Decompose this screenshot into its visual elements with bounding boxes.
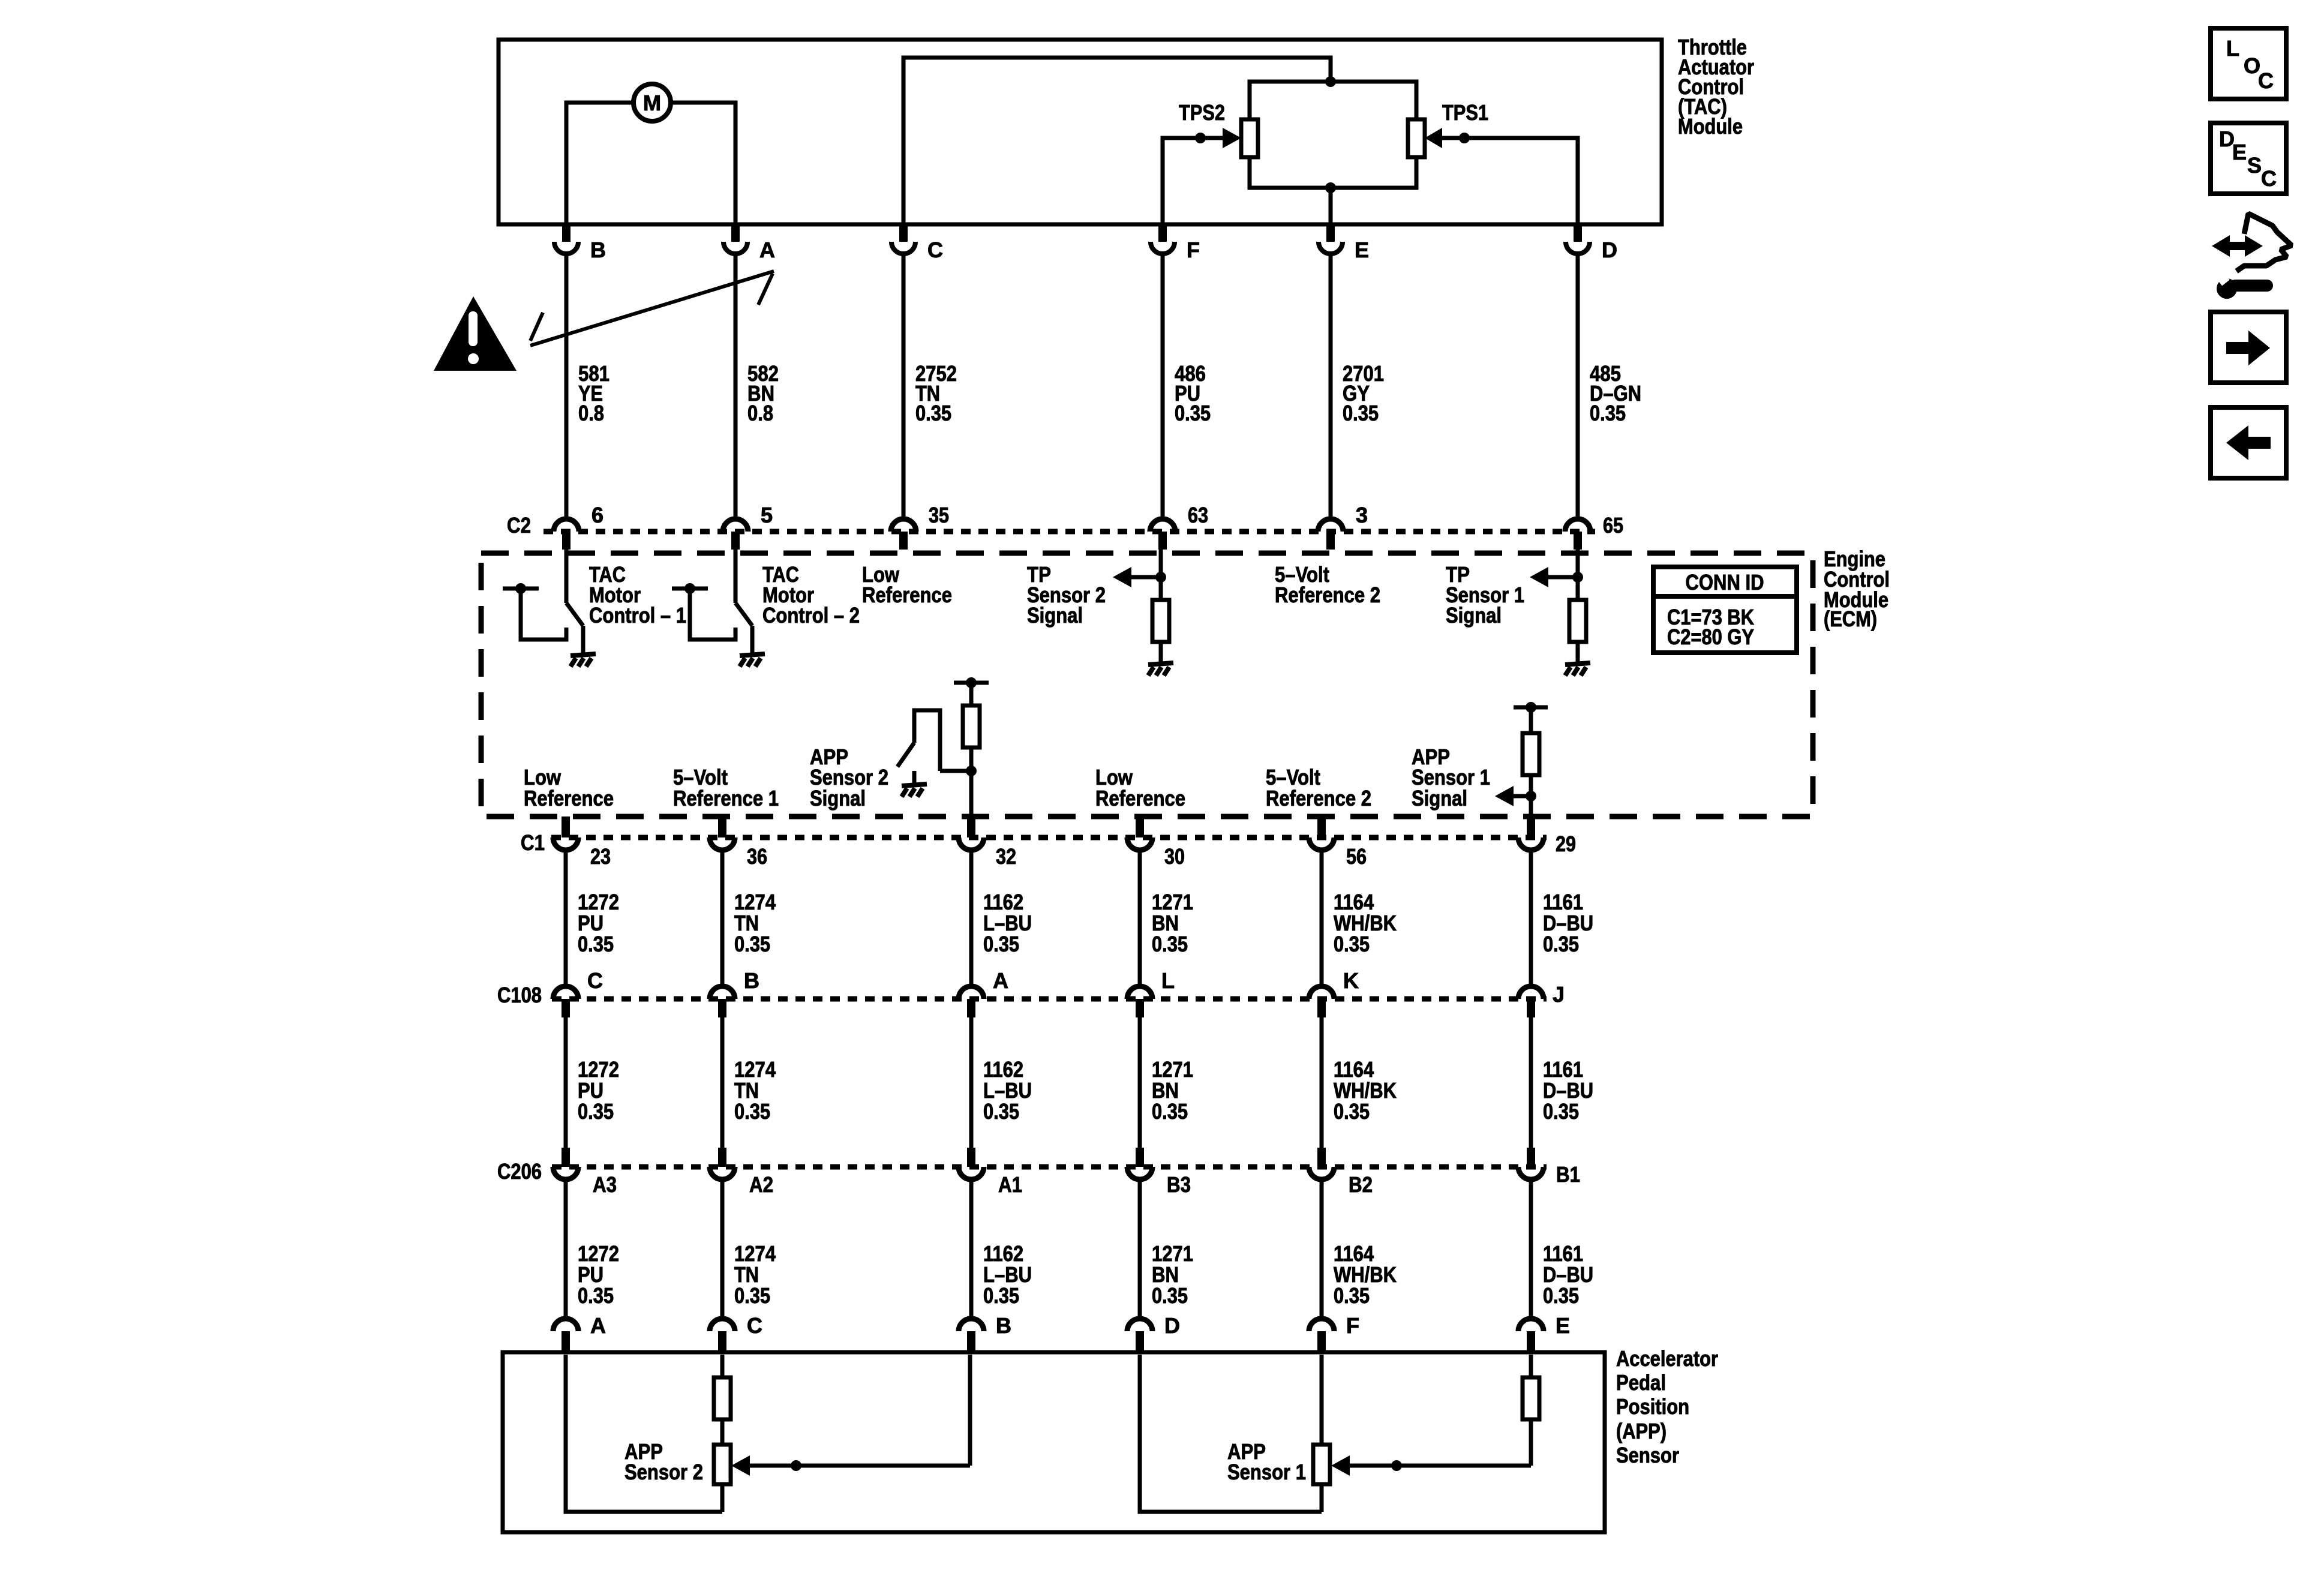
wire pin 63 into ECM — [1159, 550, 1163, 600]
svg-text:C: C — [747, 1313, 762, 1338]
APP sensor 1 signal arrow — [1495, 786, 1531, 806]
connector C206 pin B2 terminal — [1309, 1167, 1334, 1179]
wire C1 pin 36 to C108 pin B — [720, 850, 725, 985]
resistor (TP sensor 1 pull-down) — [1569, 600, 1586, 642]
svg-text:Pedal: Pedal — [1616, 1370, 1666, 1395]
diagnostic icon double arrow — [2212, 235, 2263, 257]
connector C2 pin 6 bar — [562, 532, 571, 550]
svg-text:5: 5 — [761, 503, 773, 527]
wire APP1 resistor to pin 29 — [1529, 775, 1533, 816]
APP sensor 2 potentiometer element — [714, 1445, 731, 1484]
connector C1 pin 36 terminal — [710, 837, 735, 850]
wire C206 pin A1 to APP terminal B — [969, 1179, 974, 1317]
svg-text:0.35: 0.35 — [915, 401, 951, 425]
svg-text:C: C — [2258, 68, 2274, 93]
svg-text:Position: Position — [1616, 1394, 1689, 1419]
connector C108 pin K terminal — [1309, 986, 1334, 999]
svg-text:0.35: 0.35 — [1343, 401, 1379, 425]
wire terminal D to APP sensor 1 low side — [1140, 1355, 1322, 1512]
svg-text:Reference 1: Reference 1 — [673, 786, 779, 810]
wire label 1274 TN (C1-C108) — [734, 890, 776, 956]
terminal E (APP sensor) — [1518, 1319, 1544, 1351]
svg-text:0.35: 0.35 — [983, 1283, 1019, 1308]
terminal A (APP sensor) — [553, 1319, 578, 1351]
wire E to C2 pin 3 — [1329, 254, 1333, 517]
wire C108 pin J to C206 pin B1 — [1529, 1017, 1533, 1167]
svg-text:Reference 2: Reference 2 — [1266, 786, 1371, 810]
ground (TP sensor 1) — [1565, 663, 1590, 676]
wire A to C2 pin 5 — [734, 254, 738, 517]
svg-text:Reference: Reference — [524, 786, 614, 810]
APP sensor 2 wiper arrow — [731, 1455, 970, 1476]
connector C206 pin A3 bar — [562, 1148, 570, 1167]
APP sensor box — [503, 1352, 1605, 1532]
svg-text:B: B — [590, 238, 606, 262]
resistor (APP sensor 2 series) — [714, 1377, 731, 1419]
terminal F (TAC module) — [1151, 223, 1175, 254]
terminal B (APP sensor) — [959, 1319, 984, 1351]
junction (TP sensor 1 signal) — [1572, 572, 1583, 583]
wire C206 pin A2 to APP terminal C — [720, 1179, 725, 1317]
svg-text:6: 6 — [591, 503, 603, 527]
motor M — [633, 84, 671, 121]
svg-text:L: L — [2226, 36, 2239, 61]
connector C206 pin A1 bar — [967, 1148, 975, 1167]
svg-text:Module: Module — [1678, 114, 1743, 139]
svg-text:D: D — [1602, 238, 1617, 262]
diagnostic icon wrench — [2208, 262, 2267, 299]
TAC motor control 2 driver bracket — [672, 589, 735, 640]
svg-text:A: A — [993, 968, 1008, 993]
wire F to C2 pin 63 — [1161, 254, 1165, 517]
wire pin 6 into ECM — [565, 550, 569, 603]
wire APP sensor 2 element low side — [720, 1484, 725, 1512]
svg-text:Signal: Signal — [1446, 603, 1502, 628]
connector C2 pin 35 terminal — [891, 519, 916, 532]
TAC module label — [1678, 35, 1754, 139]
svg-text:Signal: Signal — [1412, 786, 1467, 810]
ECM module label — [1824, 547, 1890, 631]
Low Reference label (pin 23) — [524, 765, 614, 810]
wire C1 pin 32 to C108 pin A — [969, 850, 974, 985]
wire label 1164 WH/BK (C108-C206) — [1334, 1057, 1397, 1124]
resistor (APP sensor 2 pull-up) — [963, 706, 980, 748]
svg-text:F: F — [1187, 238, 1200, 262]
resistor (APP sensor 1 series) — [1523, 1377, 1539, 1419]
connector C1 pin 23 bar — [562, 816, 570, 837]
svg-text:3: 3 — [1356, 503, 1368, 527]
svg-text:65: 65 — [1603, 513, 1623, 538]
svg-text:Sensor 2: Sensor 2 — [624, 1460, 703, 1484]
junction (APP2 signal) — [966, 766, 977, 776]
wire C108 pin C to C206 pin A3 — [564, 1017, 568, 1167]
ground (TP sensor 2) — [1148, 663, 1173, 676]
wire terminal C to TPS network top — [903, 58, 1331, 224]
connector C2 pin 5 terminal — [723, 519, 748, 532]
warning symbol — [434, 296, 517, 371]
connector C206 pin A3 terminal — [553, 1167, 578, 1179]
connector C206 pin B1 bar — [1527, 1148, 1535, 1167]
wire label 1271 BN (C1-C108) — [1152, 890, 1193, 956]
CONN ID table — [1653, 567, 1797, 653]
svg-text:30: 30 — [1164, 844, 1185, 869]
svg-text:Signal: Signal — [810, 786, 866, 810]
twisted-wire annotation line — [530, 271, 774, 346]
connector C1 pin 23 terminal — [553, 837, 578, 850]
svg-text:A: A — [590, 1313, 606, 1338]
connector C2 pin 6 terminal — [554, 519, 579, 532]
svg-text:C206: C206 — [497, 1159, 542, 1184]
svg-text:E: E — [2232, 140, 2247, 164]
terminal F (APP sensor) — [1309, 1319, 1334, 1351]
wire terminal B into box — [968, 1355, 972, 1466]
wire label 486 PU — [1175, 361, 1211, 425]
svg-text:B: B — [996, 1313, 1011, 1338]
svg-text:C1: C1 — [521, 830, 545, 855]
terminal D (TAC module) — [1566, 223, 1590, 254]
TAC Motor Control 2 label — [762, 562, 860, 628]
svg-text:56: 56 — [1346, 844, 1367, 869]
5-Volt Reference 2 label (pin 3) — [1275, 562, 1380, 607]
svg-text:TPS2: TPS2 — [1179, 100, 1225, 125]
TPS1 wiper arrow — [1425, 128, 1442, 148]
junction on TPS2 wiper wire — [1195, 133, 1206, 143]
connector C2 pin 3 terminal — [1318, 519, 1343, 532]
svg-text:C2: C2 — [507, 513, 531, 538]
wire pin 5 into ECM — [734, 550, 738, 603]
wire C108 pin K to C206 pin B2 — [1320, 1017, 1324, 1167]
svg-text:Sensor: Sensor — [1616, 1443, 1679, 1467]
svg-text:0.35: 0.35 — [1152, 932, 1188, 956]
wire label 1161 D–BU (C108-C206) — [1543, 1057, 1593, 1124]
TAC motor control 1 driver bracket — [503, 589, 566, 640]
svg-text:L: L — [1161, 968, 1175, 993]
wire label 1164 WH/BK (C1-C108) — [1334, 890, 1397, 956]
svg-text:D: D — [1164, 1313, 1180, 1338]
wire C to C2 pin 35 — [902, 254, 906, 517]
connector C206 pin B1 terminal — [1518, 1167, 1544, 1179]
connector C108 pin J terminal — [1518, 986, 1544, 999]
svg-text:Signal: Signal — [1027, 603, 1083, 628]
connector C2 pin 63 terminal — [1150, 519, 1175, 532]
connector C206 pin B2 bar — [1317, 1148, 1326, 1167]
wire label 1162 L–BU (C108-C206) — [983, 1057, 1032, 1124]
svg-text:0.35: 0.35 — [983, 1099, 1019, 1124]
connector C1 pin 29 bar — [1527, 816, 1535, 837]
junction TPS top — [1325, 76, 1336, 87]
connector C206 row line — [552, 1164, 1547, 1170]
APP sensor 1 potentiometer element — [1313, 1445, 1330, 1484]
svg-text:J: J — [1553, 982, 1565, 1007]
junction (APP1 top) — [1526, 702, 1536, 713]
Low Reference label (pin 30) — [1095, 765, 1185, 810]
wire C108 pin B to C206 pin A2 — [720, 1017, 725, 1167]
svg-text:E: E — [1556, 1313, 1570, 1338]
wire to APP1 resistor — [1529, 707, 1533, 733]
svg-text:K: K — [1343, 968, 1359, 993]
svg-text:S: S — [2247, 153, 2262, 178]
wire APP sensor 1 element low side — [1320, 1484, 1324, 1512]
TP Sensor 2 Signal label — [1027, 562, 1106, 628]
wire terminal B to motor — [566, 103, 632, 224]
svg-text:0.8: 0.8 — [747, 401, 773, 425]
svg-text:63: 63 — [1188, 503, 1208, 527]
svg-text:A3: A3 — [593, 1172, 617, 1197]
APP sensor 2 switch blade — [897, 743, 914, 767]
svg-text:0.35: 0.35 — [1334, 932, 1370, 956]
resistor (TP sensor 2 pull-down) — [1152, 600, 1169, 642]
wire label 1272 PU (C1-C108) — [578, 890, 619, 956]
wire C206 pin A3 to APP terminal A — [564, 1179, 568, 1317]
svg-text:Reference 2: Reference 2 — [1275, 583, 1380, 607]
connector C206 pin B3 terminal — [1127, 1167, 1152, 1179]
TPS2 wiper arrow — [1223, 128, 1241, 148]
ground (TAC motor control 2) — [740, 654, 765, 667]
wire terminal A to APP sensor 2 low side — [566, 1355, 722, 1512]
connector C108 pin C terminal — [553, 986, 578, 999]
svg-text:A2: A2 — [749, 1172, 773, 1197]
svg-text:A1: A1 — [998, 1172, 1022, 1197]
svg-text:A: A — [759, 238, 775, 262]
svg-text:B3: B3 — [1167, 1172, 1191, 1197]
wire label 485 D–GN — [1590, 361, 1641, 425]
wire terminal E into box — [1529, 1355, 1533, 1377]
connector C2 pin 3 bar — [1326, 532, 1335, 550]
terminal B (TAC module) — [554, 223, 578, 254]
connector C2 pin 5 bar — [731, 532, 740, 550]
wire terminal F to TPS2 wiper — [1163, 138, 1223, 224]
DESC icon box — [2211, 123, 2286, 194]
wire label 1164 WH/BK (C206-APP) — [1334, 1241, 1397, 1308]
junction (APP sensor 1 wiper) — [1391, 1460, 1402, 1471]
svg-text:0.35: 0.35 — [578, 1283, 614, 1308]
connector C108 pin B terminal — [710, 986, 735, 999]
svg-text:0.35: 0.35 — [1334, 1099, 1370, 1124]
svg-text:Reference: Reference — [862, 583, 952, 607]
svg-text:(ECM): (ECM) — [1824, 607, 1877, 631]
connector C1 pin 30 terminal — [1127, 837, 1152, 850]
ECM module dashed box — [481, 553, 1813, 816]
wire label 1274 TN (C206-APP) — [734, 1241, 776, 1308]
svg-text:CONN ID: CONN ID — [1686, 570, 1764, 595]
connector C206 pin A1 terminal — [959, 1167, 984, 1179]
wire label 1161 D–BU (C1-C108) — [1543, 890, 1593, 956]
terminal C (APP sensor) — [710, 1319, 735, 1351]
APP sensor 2 signal internal bracket — [954, 681, 989, 685]
svg-text:0.35: 0.35 — [1543, 1099, 1579, 1124]
connector C108 pin C bar — [562, 999, 570, 1017]
svg-text:0.8: 0.8 — [578, 401, 604, 425]
connector C1 pin 30 bar — [1136, 816, 1144, 837]
svg-text:Control – 2: Control – 2 — [762, 603, 860, 628]
wire label 1272 PU (C206-APP) — [578, 1241, 619, 1308]
wire C206 pin B1 to APP terminal E — [1529, 1179, 1533, 1317]
svg-text:Sensor 1: Sensor 1 — [1227, 1460, 1306, 1484]
connector C206 pin A2 terminal — [710, 1167, 735, 1179]
connector C108 pin B bar — [718, 999, 726, 1017]
connector C108 pin K bar — [1317, 999, 1326, 1017]
svg-text:0.35: 0.35 — [983, 932, 1019, 956]
connector C108 pin L bar — [1136, 999, 1144, 1017]
Low Reference label (pin 35) — [862, 562, 952, 607]
wire TPS bottom to terminal E — [1329, 188, 1333, 224]
wire to APP2 resistor — [969, 683, 974, 706]
APP Sensor 1 Signal label — [1412, 745, 1490, 810]
APP sensor 2 switch frame — [914, 710, 940, 771]
svg-text:C2=80 GY: C2=80 GY — [1667, 625, 1754, 649]
wire label 1272 PU (C108-C206) — [578, 1057, 619, 1124]
svg-text:C: C — [587, 968, 603, 993]
left arrow icon — [2226, 425, 2271, 460]
connector C2 pin 65 terminal — [1565, 519, 1590, 532]
LOC icon box — [2211, 28, 2286, 99]
wire label 1274 TN (C108-C206) — [734, 1057, 776, 1124]
TPS resistor network frame — [1250, 82, 1416, 188]
svg-text:35: 35 — [929, 503, 949, 527]
svg-text:0.35: 0.35 — [1152, 1283, 1188, 1308]
APP sensor 1 wiper arrow — [1331, 1455, 1531, 1476]
svg-text:0.35: 0.35 — [734, 1283, 770, 1308]
svg-text:0.35: 0.35 — [1543, 932, 1579, 956]
svg-text:0.35: 0.35 — [1590, 401, 1626, 425]
junction (TAC1 driver) — [515, 583, 526, 594]
svg-text:C: C — [2261, 166, 2277, 191]
svg-text:(APP): (APP) — [1616, 1419, 1667, 1443]
TPS2 potentiometer element — [1241, 119, 1258, 157]
connector C1 pin 56 terminal — [1309, 837, 1334, 850]
TAC motor control 2 switch blade — [735, 603, 752, 626]
junction (APP sensor 2 wiper) — [791, 1460, 801, 1471]
connector C2 row line — [544, 529, 1595, 535]
svg-text:Control – 1: Control – 1 — [589, 603, 686, 628]
connector C108 pin A bar — [967, 999, 975, 1017]
ground (APP sensor 2 switch) — [902, 784, 927, 797]
svg-text:Accelerator: Accelerator — [1616, 1346, 1718, 1371]
APP sensor 1 signal internal bracket — [1514, 706, 1548, 710]
wire label 582 BN — [747, 361, 779, 425]
connector C206 pin A2 bar — [718, 1148, 726, 1167]
APP Sensor 1 label — [1227, 1439, 1306, 1484]
5-Volt Reference 1 label (pin 36) — [673, 765, 779, 810]
wire resistor to APP sensor 1 wiper — [1529, 1419, 1533, 1466]
junction (APP2 top) — [966, 677, 977, 688]
right arrow icon — [2226, 331, 2270, 365]
wire C1 pin 56 to C108 pin K — [1320, 850, 1324, 985]
diagnostic icon component outline — [2236, 214, 2292, 271]
wire C1 pin 23 to C108 pin C — [564, 850, 568, 985]
wire resistor to APP sensor 2 element — [720, 1419, 725, 1445]
wire label 1271 BN (C108-C206) — [1152, 1057, 1193, 1124]
svg-text:B1: B1 — [1556, 1162, 1580, 1187]
svg-text:Reference: Reference — [1095, 786, 1185, 810]
wire blade to ground (TAC2) — [750, 626, 755, 655]
connector C108 pin J bar — [1527, 999, 1535, 1017]
wire C1 pin 29 to C108 pin J — [1529, 850, 1533, 985]
wire label 581 YE — [578, 361, 609, 425]
previous-page (left arrow) icon box — [2211, 407, 2286, 478]
svg-text:0.35: 0.35 — [578, 932, 614, 956]
wire C206 pin B3 to APP terminal D — [1138, 1179, 1142, 1317]
svg-text:0.35: 0.35 — [1175, 401, 1211, 425]
wire C108 pin L to C206 pin B3 — [1138, 1017, 1142, 1167]
wire resistor to ground (TP1) — [1576, 642, 1580, 664]
connector C1 pin 29 terminal — [1518, 837, 1544, 850]
wire terminal F into box — [1320, 1355, 1324, 1445]
wire motor to terminal A — [672, 103, 735, 224]
terminal C (TAC module) — [891, 223, 915, 254]
junction (APP1 signal) — [1526, 791, 1536, 801]
wire pin 65 into ECM — [1576, 550, 1580, 600]
svg-text:23: 23 — [590, 844, 611, 869]
wire C206 pin B2 to APP terminal F — [1320, 1179, 1324, 1317]
svg-text:M: M — [643, 91, 661, 115]
wire label 2752 TN — [915, 361, 957, 425]
ground (TAC motor control 1) — [571, 654, 596, 667]
connector C108 pin A terminal — [959, 986, 984, 999]
wire APP2 switch to ground — [912, 771, 917, 785]
terminal D (APP sensor) — [1127, 1319, 1152, 1351]
terminal A (TAC module) — [723, 223, 747, 254]
wire label 1271 BN (C206-APP) — [1152, 1241, 1193, 1308]
TAC Motor Control 1 label — [589, 562, 686, 628]
next-page (right arrow) icon box — [2211, 312, 2286, 383]
connector C1 pin 36 bar — [718, 816, 726, 837]
5-Volt Reference 2 label (pin 56) — [1266, 765, 1371, 810]
wire terminal C into box — [720, 1355, 725, 1377]
wire D to C2 pin 65 — [1576, 254, 1580, 517]
wire label 1162 L–BU (C206-APP) — [983, 1241, 1032, 1308]
wire label 1162 L–BU (C1-C108) — [983, 890, 1032, 956]
svg-text:36: 36 — [747, 844, 767, 869]
TP sensor 2 signal arrow — [1113, 567, 1161, 587]
junction (TAC2 driver) — [684, 583, 695, 594]
connector C2 pin 63 bar — [1158, 532, 1167, 550]
svg-text:TPS1: TPS1 — [1442, 100, 1488, 125]
svg-text:0.35: 0.35 — [578, 1099, 614, 1124]
junction TPS bottom — [1325, 182, 1336, 193]
connector C1 pin 32 terminal — [959, 837, 984, 850]
APP sensor box label — [1616, 1346, 1718, 1467]
connector C2 pin 65 bar — [1574, 532, 1582, 550]
TAC module box — [499, 40, 1662, 224]
svg-text:0.35: 0.35 — [1334, 1283, 1370, 1308]
svg-text:32: 32 — [996, 844, 1016, 869]
wire terminal D to TPS1 wiper — [1442, 138, 1578, 224]
svg-text:C108: C108 — [497, 983, 542, 1007]
wire junction to APP2 switch — [940, 769, 971, 773]
svg-text:0.35: 0.35 — [734, 1099, 770, 1124]
connector C108 pin L terminal — [1127, 986, 1152, 999]
svg-text:0.35: 0.35 — [734, 932, 770, 956]
junction (TP sensor 2 signal) — [1155, 572, 1166, 583]
svg-text:29: 29 — [1556, 831, 1576, 856]
APP Sensor 2 Signal label — [810, 745, 888, 810]
connector C2 pin 35 bar — [899, 532, 908, 550]
connector C1 pin 32 bar — [967, 816, 975, 837]
svg-text:0.35: 0.35 — [1543, 1283, 1579, 1308]
TPS1 potentiometer element — [1408, 119, 1425, 157]
wire C108 pin A to C206 pin A1 — [969, 1017, 974, 1167]
APP Sensor 2 label — [624, 1439, 703, 1484]
wire B to C2 pin 6 — [565, 254, 569, 517]
TAC motor control 1 switch blade — [566, 603, 583, 626]
wire APP2 resistor to pin 32 — [969, 748, 974, 816]
connector C1 pin 56 bar — [1317, 816, 1326, 837]
terminal E (TAC module) — [1319, 223, 1343, 254]
svg-text:E: E — [1355, 238, 1369, 262]
connector C108 row line — [552, 996, 1547, 1002]
resistor (APP sensor 1 pull-up) — [1523, 733, 1539, 775]
